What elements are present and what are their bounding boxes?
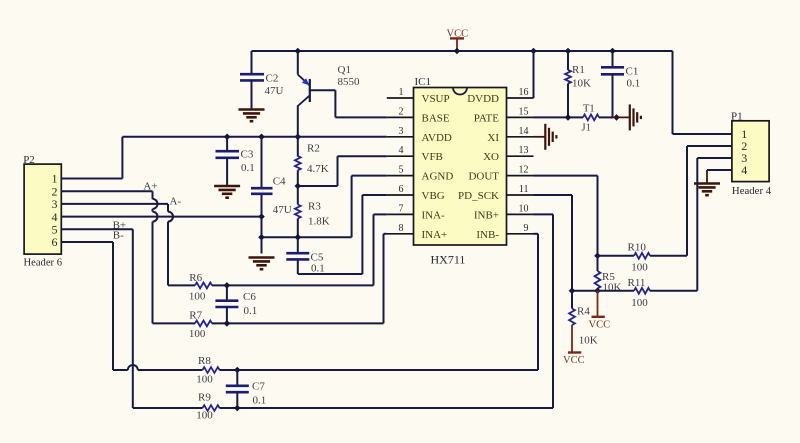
svg-text:4: 4 xyxy=(399,145,404,156)
svg-text:16: 16 xyxy=(519,87,529,98)
wire P2 pin3 A- row xyxy=(61,203,168,205)
svg-text:0.1: 0.1 xyxy=(241,162,255,174)
wire AVDD row xyxy=(122,136,386,138)
wire P2 pin6 B- corner xyxy=(61,241,113,243)
svg-text:R11: R11 xyxy=(628,277,646,289)
svg-text:C3: C3 xyxy=(241,149,254,161)
node junction VCC rail at DVDD riser xyxy=(530,48,537,55)
svg-text:VCC: VCC xyxy=(563,355,585,366)
svg-text:INB+: INB+ xyxy=(474,209,499,221)
svg-text:VCC: VCC xyxy=(447,29,469,40)
svg-text:11: 11 xyxy=(519,184,529,195)
svg-text:13: 13 xyxy=(519,145,529,156)
wire INB- pin9 down to R8 row xyxy=(534,234,539,370)
wire R11 to P1 pin3 xyxy=(650,158,732,291)
svg-text:DOUT: DOUT xyxy=(468,171,499,183)
wire INB+ pin10 down to R9 row xyxy=(534,214,554,408)
wire P2 pin1 to AVDD riser xyxy=(61,137,122,179)
wire VCC top rail xyxy=(252,50,673,52)
connector P2 Header 6 xyxy=(23,154,62,269)
wire P2 pin5 B+ corner xyxy=(61,228,133,230)
svg-text:T1: T1 xyxy=(583,104,595,115)
node junction C4 at AGND row xyxy=(258,234,265,241)
resistor R6 xyxy=(189,272,212,303)
svg-text:0.1: 0.1 xyxy=(244,305,258,317)
capacitor C7 xyxy=(226,370,266,408)
node junction C4 at P2 pin4 row xyxy=(258,213,265,220)
svg-text:0.1: 0.1 xyxy=(253,395,267,407)
ground under C2 xyxy=(239,110,265,122)
node label B- xyxy=(113,229,124,241)
ground under C3 xyxy=(214,186,240,198)
svg-text:0.1: 0.1 xyxy=(627,78,641,90)
pin 12 lead DOUT xyxy=(468,165,533,183)
svg-text:R1: R1 xyxy=(572,64,585,76)
pin 8 lead INA+ xyxy=(387,223,447,241)
node junction R9 row at C7 xyxy=(234,405,241,412)
svg-text:100: 100 xyxy=(631,262,648,274)
wire P2 pin2 A+ row xyxy=(61,190,152,192)
svg-text:P2: P2 xyxy=(23,154,35,166)
svg-text:6: 6 xyxy=(399,184,404,195)
svg-text:C1: C1 xyxy=(626,66,639,78)
node junction R1 bottom at J1 xyxy=(565,114,572,121)
pin 16 lead DVDD xyxy=(467,87,533,105)
svg-text:VSUP: VSUP xyxy=(422,93,450,105)
wire A- vertical with hop xyxy=(168,204,173,286)
svg-text:VFB: VFB xyxy=(422,151,443,163)
pin 1 lead VSUP xyxy=(387,87,450,105)
connector P1 Header 4 xyxy=(731,111,772,198)
ground right of XI pin xyxy=(545,124,556,150)
wire R11 row left xyxy=(572,290,634,292)
svg-text:0.1: 0.1 xyxy=(311,263,325,275)
wire R2/R3 node to VFB pin4 xyxy=(298,156,387,186)
svg-text:12: 12 xyxy=(519,165,529,176)
node label B+ xyxy=(113,219,127,231)
capacitor C4 xyxy=(251,137,292,254)
wire DOUT pin12 to R10 node xyxy=(534,176,598,256)
svg-text:4.7K: 4.7K xyxy=(307,163,329,175)
node junction VCC rail at Q1 emitter xyxy=(295,48,302,55)
svg-text:6: 6 xyxy=(52,235,58,249)
capacitor C2 xyxy=(240,51,284,110)
node junction R7 row at C6 xyxy=(224,320,231,327)
resistor R4 xyxy=(569,291,598,347)
svg-text:C6: C6 xyxy=(243,291,256,303)
svg-text:A-: A- xyxy=(170,195,182,207)
wire P1 pin1 from VCC rail xyxy=(673,51,732,134)
svg-text:INA-: INA- xyxy=(422,209,446,221)
node junction VCC rail at VCC stem xyxy=(454,48,461,55)
transistor Q1 xyxy=(298,51,360,106)
wire Q1 base to IC BASE pin xyxy=(310,90,387,117)
svg-text:100: 100 xyxy=(189,328,206,340)
svg-text:Header 4: Header 4 xyxy=(732,185,772,197)
svg-text:C2: C2 xyxy=(266,73,279,85)
svg-text:R6: R6 xyxy=(189,272,202,284)
svg-text:C7: C7 xyxy=(252,381,265,393)
svg-text:100: 100 xyxy=(189,291,206,303)
pin 3 lead AVDD xyxy=(387,126,452,144)
svg-text:10K: 10K xyxy=(572,78,591,90)
resistor R2 xyxy=(295,142,329,186)
wire C5 bottom to VBG pin6 xyxy=(298,195,387,274)
wire B- vertical xyxy=(112,242,114,370)
node junction R10 row at R5 top xyxy=(594,253,601,260)
wire J1 to ground stem xyxy=(613,116,630,118)
svg-text:100: 100 xyxy=(196,374,213,386)
svg-text:9: 9 xyxy=(524,223,529,234)
pin 13 lead XO xyxy=(483,145,533,163)
resistor R5 xyxy=(595,256,622,293)
node label A- xyxy=(170,195,182,207)
wire A- to R6 xyxy=(168,284,195,286)
svg-text:INB-: INB- xyxy=(476,229,499,241)
resistor R3 xyxy=(295,186,330,237)
op-amp IC U1 HX711 body xyxy=(414,76,507,267)
pin 9 lead INB- xyxy=(476,223,533,241)
wire AGND row to pin5 xyxy=(262,176,387,238)
pin 5 lead AGND xyxy=(387,165,454,183)
wire R7 row to INA+ pin8 xyxy=(212,234,387,324)
svg-text:R8: R8 xyxy=(198,355,211,367)
svg-text:PD_SCK: PD_SCK xyxy=(458,190,499,202)
ground right of J1 xyxy=(630,104,641,130)
svg-text:Header 6: Header 6 xyxy=(24,258,63,269)
svg-text:XO: XO xyxy=(483,151,499,163)
svg-text:XI: XI xyxy=(487,132,499,144)
pin 6 lead VBG xyxy=(387,184,445,202)
wire R9 row to INB+ riser xyxy=(220,407,554,409)
pin 2 lead BASE xyxy=(387,106,450,124)
svg-text:8: 8 xyxy=(399,223,404,234)
wire A+ to R7 xyxy=(153,322,196,324)
pin 4 lead VFB xyxy=(387,145,443,163)
svg-text:PATE: PATE xyxy=(474,112,500,124)
node junction AVDD at Q1/R2 column xyxy=(295,134,302,141)
svg-text:INA+: INA+ xyxy=(422,229,448,241)
svg-text:VCC: VCC xyxy=(589,320,611,331)
svg-text:10K: 10K xyxy=(579,335,598,347)
node junction AVDD at C3 xyxy=(224,134,231,141)
svg-text:VBG: VBG xyxy=(422,190,445,202)
node label A+ xyxy=(143,180,157,192)
node junction VCC rail at R1 xyxy=(565,48,572,55)
svg-text:R3: R3 xyxy=(308,201,321,213)
resistor R7 xyxy=(189,310,212,341)
wire P2 pin4 row to C4 xyxy=(61,216,261,218)
resistor R9 xyxy=(196,391,219,421)
resistor R11 xyxy=(628,277,651,309)
svg-text:47U: 47U xyxy=(265,85,284,97)
svg-text:7: 7 xyxy=(399,203,404,214)
svg-text:100: 100 xyxy=(196,410,213,422)
wire R8 row to INB- riser xyxy=(220,369,539,371)
svg-text:IC1: IC1 xyxy=(415,76,432,88)
ground under C4 xyxy=(249,258,275,270)
node junction VCC rail at C1 xyxy=(609,48,616,55)
wire R6 row to INA- pin7 xyxy=(212,214,387,285)
svg-text:8550: 8550 xyxy=(338,76,361,88)
svg-text:1: 1 xyxy=(399,87,404,98)
svg-text:DVDD: DVDD xyxy=(467,93,499,105)
power VCC symbol under R5 xyxy=(589,291,611,331)
wire B+ vertical xyxy=(132,229,134,408)
svg-text:AVDD: AVDD xyxy=(422,132,452,144)
svg-text:15: 15 xyxy=(519,106,529,117)
wire B+ to R9 xyxy=(133,407,203,409)
svg-text:BASE: BASE xyxy=(422,112,450,124)
svg-text:P1: P1 xyxy=(731,111,743,123)
resistor R10 xyxy=(628,242,651,274)
ground under P1 pin4 xyxy=(694,184,720,196)
wire B- to R8 with hop over B+ xyxy=(113,365,203,370)
svg-text:14: 14 xyxy=(519,126,529,137)
pin 10 lead INB+ xyxy=(474,203,534,221)
pin 7 lead INA- xyxy=(387,203,445,221)
inductor T1 J1 xyxy=(577,104,613,134)
node junction R2 bottom R3 top xyxy=(295,183,302,190)
power VCC symbol under R4 xyxy=(563,325,585,366)
node junction C1 bottom at J1 xyxy=(613,114,620,121)
wire A+ vertical with hops xyxy=(153,191,158,323)
node junction AGND row at R3/C5 xyxy=(295,234,302,241)
pin 11 lead PD_SCK xyxy=(458,184,533,202)
wire R10 to P1 pin2 xyxy=(650,146,732,256)
wire Q1 collector down to AVDD and R2 xyxy=(297,106,299,157)
svg-text:R9: R9 xyxy=(198,391,211,403)
svg-text:AGND: AGND xyxy=(422,171,454,183)
node junction AVDD at C4 xyxy=(258,134,265,141)
svg-text:R7: R7 xyxy=(189,310,202,322)
wire R10 row left xyxy=(598,255,635,257)
svg-text:J1: J1 xyxy=(582,123,591,134)
svg-text:HX711: HX711 xyxy=(431,253,466,267)
svg-text:1.8K: 1.8K xyxy=(308,216,330,228)
capacitor C3 xyxy=(216,137,255,186)
svg-text:R10: R10 xyxy=(628,242,647,254)
svg-text:47U: 47U xyxy=(273,204,292,216)
node junction R6 row at C6 xyxy=(224,282,231,289)
node junction R11 row at R5 bottom xyxy=(594,288,601,295)
wire P1 pin4 to ground xyxy=(707,170,732,184)
node junction R11 row at PD_SCK riser xyxy=(569,288,576,295)
wire PD_SCK pin11 to R11 node xyxy=(534,195,573,291)
wire PATE pin15 row xyxy=(534,116,578,118)
pin 14 lead XI xyxy=(487,126,533,144)
svg-text:R2: R2 xyxy=(307,142,320,154)
svg-text:C4: C4 xyxy=(273,176,286,188)
power VCC symbol top xyxy=(447,29,469,52)
svg-text:3: 3 xyxy=(399,126,404,137)
svg-text:100: 100 xyxy=(631,297,648,309)
svg-text:4: 4 xyxy=(741,163,747,177)
capacitor C1 xyxy=(601,51,640,117)
svg-text:R4: R4 xyxy=(577,306,590,318)
svg-text:A+: A+ xyxy=(143,180,157,192)
svg-text:10: 10 xyxy=(519,203,529,214)
svg-text:5: 5 xyxy=(399,165,404,176)
svg-text:Q1: Q1 xyxy=(338,64,351,76)
resistor R1 xyxy=(565,51,591,117)
resistor R8 xyxy=(196,355,219,386)
capacitor C6 xyxy=(215,285,257,323)
wire DVDD pin16 riser to VCC rail xyxy=(533,51,535,98)
node junction R8 row at C7 xyxy=(234,367,241,374)
svg-text:B-: B- xyxy=(113,229,124,241)
svg-text:2: 2 xyxy=(399,106,404,117)
wire XI pin14 to ground stem xyxy=(534,136,546,138)
capacitor C5 xyxy=(286,237,324,274)
pin 15 lead PATE xyxy=(474,106,534,124)
